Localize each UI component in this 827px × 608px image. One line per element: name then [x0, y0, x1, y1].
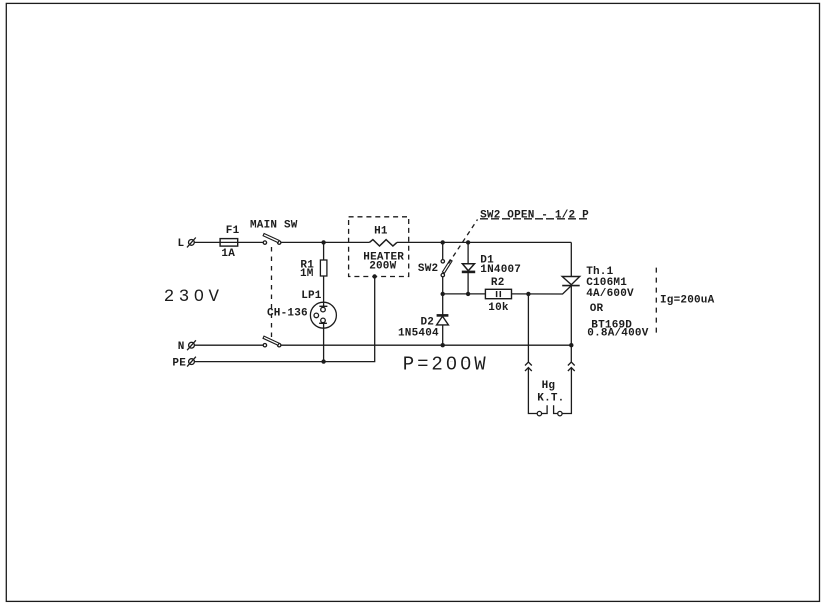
- SW2 open callout dashed leader: [449, 220, 478, 264]
- svg-text:4A/600V: 4A/600V: [586, 288, 634, 300]
- switch MAIN SW L-pole: [263, 234, 281, 245]
- svg-text:PE: PE: [172, 357, 186, 369]
- wire R1 branch: [323, 242, 325, 260]
- resistor R2: [485, 289, 511, 298]
- gate wire right: [512, 286, 572, 294]
- node lamp PE: [321, 359, 325, 363]
- wire heater to corner: [397, 241, 571, 243]
- node gate branch: [526, 292, 530, 296]
- svg-text:OR: OR: [590, 303, 604, 315]
- wire L to heater: [281, 241, 370, 243]
- wire N left: [194, 344, 263, 346]
- terminal L: [187, 238, 196, 248]
- svg-text:1N5404: 1N5404: [398, 327, 439, 339]
- svg-text:0.8A/400V: 0.8A/400V: [587, 327, 648, 339]
- node D2 bottom: [441, 343, 445, 347]
- svg-text:P=200W: P=200W: [403, 354, 489, 376]
- svg-text:R2: R2: [491, 277, 505, 289]
- gang dashed line: [271, 247, 273, 342]
- Hg left branch: [527, 294, 529, 362]
- node heater earth: [372, 274, 376, 278]
- junction dots: [321, 240, 573, 364]
- svg-text:L: L: [177, 238, 184, 250]
- svg-text:10k: 10k: [488, 302, 509, 314]
- svg-text:1N4007: 1N4007: [480, 264, 521, 276]
- svg-text:K.T.: K.T.: [537, 393, 564, 405]
- node R1 top: [321, 240, 325, 244]
- thyristor Th.1: [562, 277, 580, 362]
- terminal N: [187, 340, 196, 350]
- labels: [164, 209, 715, 404]
- fuse F1: [220, 239, 238, 247]
- wire PE: [194, 277, 374, 362]
- svg-text:1M: 1M: [300, 268, 314, 280]
- SW2 OPEN label dashed underline: [480, 218, 588, 220]
- Ig dashed line: [655, 268, 657, 336]
- lamp LP1: [310, 302, 336, 328]
- svg-text:Ig=200uA: Ig=200uA: [660, 294, 715, 306]
- svg-text:SW2 OPEN - 1/2 P: SW2 OPEN - 1/2 P: [480, 209, 589, 221]
- diode D1: [462, 242, 475, 294]
- zero-dot covers (match Courier plain zero): [197, 293, 468, 366]
- diode D2: [437, 294, 449, 345]
- svg-text:CH-136: CH-136: [267, 307, 308, 319]
- wire N right: [281, 344, 571, 346]
- wire lamp to PE: [323, 323, 325, 361]
- Hg right branch lower: [562, 368, 571, 414]
- svg-text:Hg: Hg: [542, 380, 556, 392]
- svg-text:H1: H1: [374, 226, 388, 238]
- switch MAIN SW N-pole: [263, 336, 281, 347]
- svg-text:N: N: [178, 341, 185, 353]
- contact right circle: [558, 411, 562, 415]
- wire R1 to lamp: [323, 276, 325, 306]
- switch SW2: [441, 242, 452, 294]
- chevron pair right: [568, 362, 575, 371]
- svg-text:200W: 200W: [369, 261, 396, 273]
- svg-text:LP1: LP1: [301, 290, 322, 302]
- terminal PE: [187, 357, 196, 367]
- gate wire: [443, 293, 486, 295]
- contact right hook: [554, 405, 558, 413]
- node cathode N: [569, 343, 573, 347]
- svg-text:230V: 230V: [164, 287, 224, 307]
- node SW2 top: [441, 240, 445, 244]
- Hg left branch lower: [528, 368, 537, 414]
- node D1 top: [466, 240, 470, 244]
- node SW2 bottom: [441, 292, 445, 296]
- wire L line: [194, 241, 263, 243]
- heater H1 zigzag: [369, 240, 397, 246]
- heater enclosure dashed box: [349, 217, 409, 277]
- svg-text:1A: 1A: [221, 248, 235, 260]
- resistor R1: [320, 260, 327, 276]
- contact left circle: [537, 411, 541, 415]
- node D1 bottom: [466, 292, 470, 296]
- svg-text:F1: F1: [226, 225, 240, 237]
- svg-text:MAIN SW: MAIN SW: [250, 219, 298, 231]
- chevron pair left: [525, 362, 532, 371]
- contact left hook: [542, 405, 548, 413]
- wire corner down to thyristor: [570, 242, 572, 276]
- svg-text:SW2: SW2: [418, 263, 438, 275]
